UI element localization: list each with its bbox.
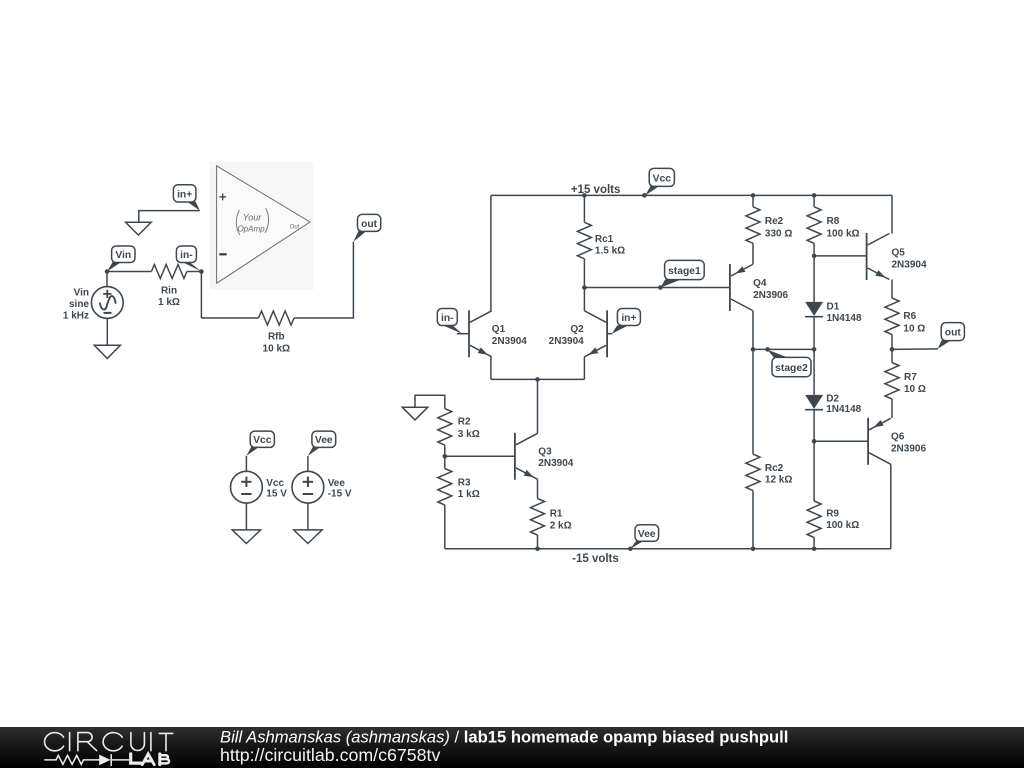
svg-text:Vin: Vin [115,250,131,261]
svg-text:Q3: Q3 [538,446,552,457]
svg-text:Q1: Q1 [492,324,506,335]
svg-text:out: out [361,219,378,230]
svg-text:R6: R6 [903,311,916,322]
svg-text:10 Ω: 10 Ω [903,323,925,334]
svg-text:Vee: Vee [315,435,333,446]
svg-text:1 kHz: 1 kHz [63,311,89,322]
svg-text:D2: D2 [826,393,839,404]
svg-text:Rfb: Rfb [268,332,285,343]
svg-text:R8: R8 [827,216,840,227]
svg-text:Vee: Vee [328,478,346,489]
svg-text:Q5: Q5 [892,247,906,258]
svg-text:10 kΩ: 10 kΩ [263,343,290,354]
svg-text:OpAmp: OpAmp [237,225,265,234]
svg-text:-15 volts: -15 volts [572,553,619,565]
svg-text:2N3904: 2N3904 [492,336,527,347]
svg-text:R3: R3 [458,478,471,489]
svg-text:1 kΩ: 1 kΩ [458,489,480,500]
svg-text:-15 V: -15 V [328,488,352,499]
svg-text:R1: R1 [550,509,563,520]
svg-text:Rc2: Rc2 [765,463,784,474]
svg-text:1N4148: 1N4148 [827,313,862,324]
svg-text:2N3904: 2N3904 [549,336,584,347]
svg-text:2N3904: 2N3904 [538,458,573,469]
svg-text:330 Ω: 330 Ω [765,228,792,239]
svg-text:http://circuitlab.com/c6758tv: http://circuitlab.com/c6758tv [220,745,440,765]
svg-text:1N4148: 1N4148 [826,404,861,415]
svg-text:Q6: Q6 [891,432,905,443]
svg-text:1 kΩ: 1 kΩ [158,297,180,308]
svg-text:10 Ω: 10 Ω [904,384,926,395]
svg-text:2N3906: 2N3906 [891,444,926,455]
svg-text:Your: Your [243,213,263,223]
svg-text:stage1: stage1 [668,266,701,277]
svg-text:100 kΩ: 100 kΩ [827,228,860,239]
svg-text:stage2: stage2 [775,363,808,374]
svg-text:Re2: Re2 [765,216,784,227]
svg-text:12 kΩ: 12 kΩ [765,475,792,486]
svg-text:in-: in- [180,250,193,261]
svg-text:Vcc: Vcc [266,478,284,489]
svg-text:D1: D1 [827,301,840,312]
svg-text:in+: in+ [621,313,636,324]
svg-text:out: out [945,328,962,339]
svg-text:R2: R2 [458,416,471,427]
svg-text:Rc1: Rc1 [595,234,614,245]
svg-text:2N3906: 2N3906 [753,290,788,301]
svg-text:in-: in- [441,313,454,324]
svg-text:Q2: Q2 [570,324,584,335]
svg-text:Q4: Q4 [753,278,767,289]
svg-text:2N3904: 2N3904 [892,259,927,270]
svg-text:Bill Ashmanskas (ashmanskas) /: Bill Ashmanskas (ashmanskas) / lab15 hom… [220,728,788,747]
svg-text:Out: Out [290,224,300,230]
svg-text:3 kΩ: 3 kΩ [458,429,480,440]
svg-text:Rin: Rin [161,285,177,296]
svg-text:15 V: 15 V [266,488,287,499]
svg-text:+15 volts: +15 volts [571,184,621,196]
svg-text:in+: in+ [177,189,192,200]
svg-text:1.5 kΩ: 1.5 kΩ [595,245,625,256]
svg-text:R7: R7 [904,372,917,383]
svg-text:Vcc: Vcc [653,173,672,184]
svg-text:sine: sine [69,299,89,310]
svg-text:Vcc: Vcc [253,435,272,446]
svg-text:Vee: Vee [638,529,656,540]
svg-text:Vin: Vin [74,287,89,298]
svg-text:R9: R9 [826,508,839,519]
svg-text:2 kΩ: 2 kΩ [550,520,572,531]
svg-text:100 kΩ: 100 kΩ [826,520,859,531]
